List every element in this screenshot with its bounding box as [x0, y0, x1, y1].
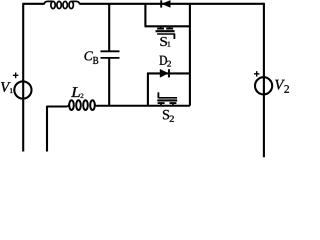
transistor S1 drain pad	[157, 28, 164, 30]
label V2	[275, 80, 285, 90]
wire D2 left vertical	[147, 73, 149, 105]
wire S1 conductor horizontal	[145, 25, 190, 27]
transistor S1 source pad	[166, 28, 173, 30]
wire C_B top lead	[108, 4, 110, 51]
inductor L2 coil entry arc	[66, 104, 69, 107]
label V1	[1, 82, 11, 92]
inductor L1 loop 4	[69, 1, 73, 8]
label C_B	[85, 51, 93, 60]
capacitor C_B top plate	[101, 50, 120, 52]
wire S1 left vertical	[144, 4, 146, 26]
diode D2 triangle	[160, 69, 168, 77]
inductor L1 loop 2	[57, 1, 61, 8]
inductor L2 coil exit arc	[95, 104, 98, 106]
label S2	[163, 110, 169, 120]
inductor L1 coil entry arc	[44, 1, 53, 4]
capacitor C_B bottom plate	[101, 57, 120, 59]
wire bottom middle right segment	[97, 105, 190, 107]
wire bottom left vertical	[46, 106, 48, 152]
transistor S1 gate line	[157, 33, 174, 35]
label S1	[160, 37, 167, 46]
wire C_B bottom lead	[108, 58, 110, 106]
wire D2 horizontal	[147, 72, 190, 74]
transistor S2 source pad	[170, 102, 177, 104]
label L2	[71, 87, 80, 97]
transistor S2 gate line	[158, 97, 177, 99]
transistor S2 source stub	[172, 103, 174, 106]
transistor S2 drain pad	[158, 102, 165, 104]
transistor S1 gate lead	[173, 33, 175, 39]
inductor L1 coil exit arc	[71, 1, 79, 4]
transistor S2 drain stub	[160, 103, 162, 106]
inductor L2 loop 3	[83, 100, 88, 110]
transistor S1 source stub	[169, 26, 171, 28]
source V2 circle	[255, 77, 272, 94]
transistor S2 channel bar	[157, 99, 177, 101]
inductor L2 loop 2	[76, 100, 81, 110]
plus sign V2	[254, 71, 259, 77]
inductor L2 loop 1	[69, 100, 74, 110]
transistor S1 drain stub	[160, 26, 162, 28]
wire top rail right segment	[79, 3, 264, 5]
wire middle right vertical	[189, 4, 191, 106]
inductor L1 loop 1	[51, 1, 55, 8]
inductor L2 loop 4	[90, 100, 95, 110]
wire bottom middle	[47, 106, 67, 108]
diode D1 cathode bar	[160, 0, 162, 7]
wire top rail left segment	[22, 3, 44, 5]
diode D1 triangle	[162, 0, 170, 7]
inductor L1 loop 3	[63, 1, 67, 8]
transistor S2 gate lead	[157, 92, 159, 98]
transistor S1 channel bar	[156, 30, 175, 32]
wire right rail and V2 branch	[263, 3, 265, 157]
source V1 circle	[14, 81, 31, 98]
diode D2 cathode bar	[168, 69, 170, 77]
plus sign V1	[13, 73, 19, 79]
label D2	[160, 56, 167, 65]
wire left rail and V1 branch	[22, 4, 24, 152]
